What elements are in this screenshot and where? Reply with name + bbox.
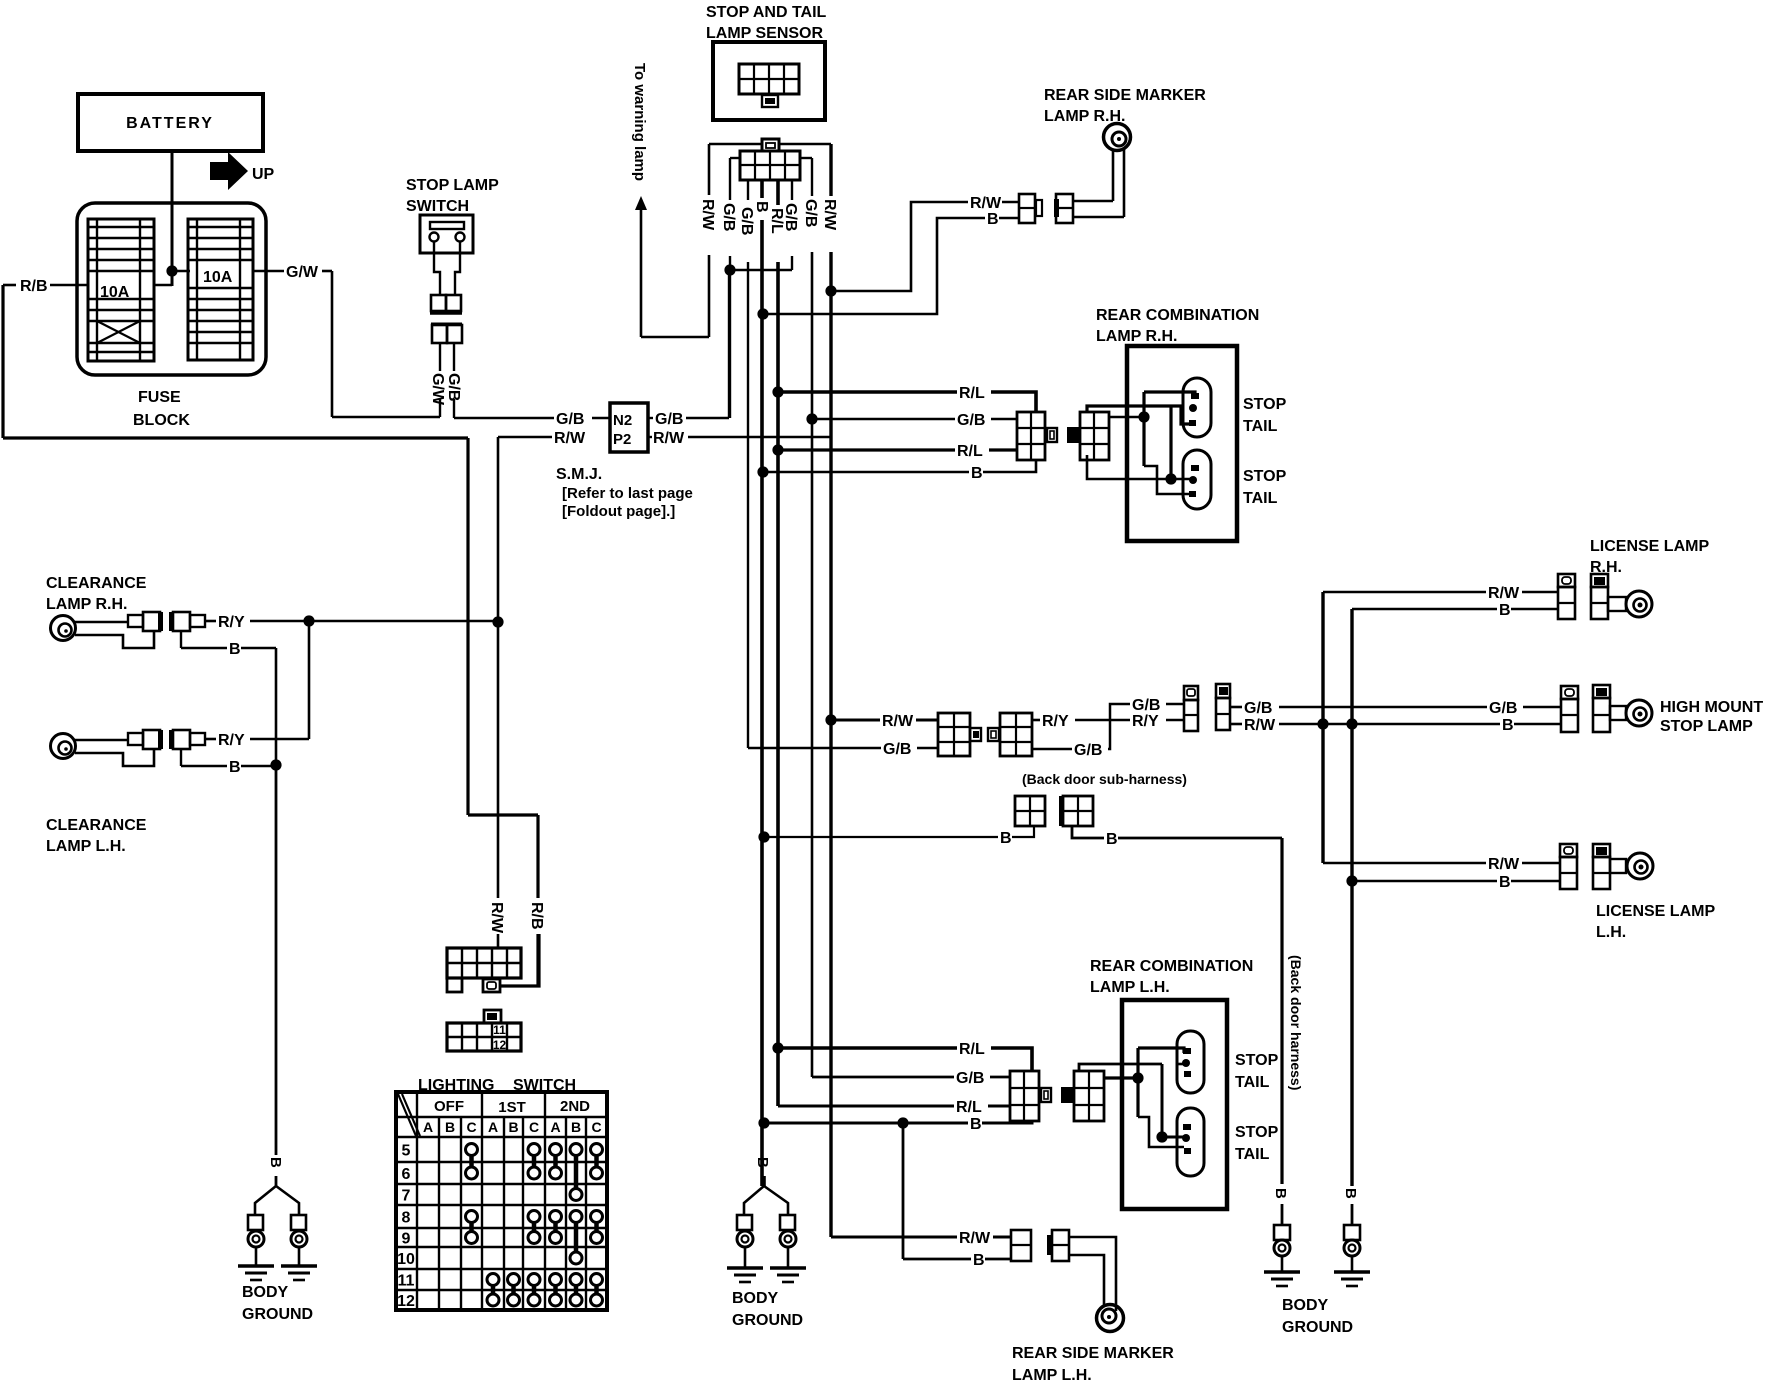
svg-text:10A: 10A	[203, 269, 233, 286]
svg-text:LAMP L.H.: LAMP L.H.	[1090, 979, 1170, 996]
svg-text:G/B: G/B	[956, 1070, 984, 1087]
svg-text:C: C	[591, 1119, 601, 1135]
svg-text:GROUND: GROUND	[732, 1312, 803, 1329]
svg-text:(Back door sub-harness): (Back door sub-harness)	[1022, 771, 1187, 787]
svg-text:STOP: STOP	[1243, 468, 1287, 485]
svg-text:B: B	[1499, 602, 1511, 619]
svg-text:B: B	[229, 641, 241, 658]
svg-text:R/W: R/W	[699, 199, 716, 231]
svg-text:R/L: R/L	[959, 385, 985, 402]
svg-text:HIGH MOUNT: HIGH MOUNT	[1660, 699, 1763, 716]
svg-text:B: B	[508, 1119, 518, 1135]
svg-text:LICENSE LAMP: LICENSE LAMP	[1596, 903, 1715, 920]
svg-text:R/Y: R/Y	[218, 732, 245, 749]
svg-text:B: B	[754, 1157, 771, 1168]
svg-text:G/B: G/B	[957, 412, 985, 429]
svg-text:CLEARANCE: CLEARANCE	[46, 817, 147, 834]
svg-text:BATTERY: BATTERY	[126, 115, 214, 132]
svg-text:B: B	[229, 759, 241, 776]
svg-text:REAR COMBINATION: REAR COMBINATION	[1096, 307, 1259, 324]
svg-text:LAMP L.H.: LAMP L.H.	[1012, 1367, 1092, 1384]
svg-text:9: 9	[402, 1231, 411, 1248]
svg-text:G/B: G/B	[1074, 742, 1102, 759]
svg-text:B: B	[1502, 717, 1514, 734]
svg-text:G/B: G/B	[445, 373, 462, 401]
svg-text:A: A	[550, 1119, 560, 1135]
svg-text:R/Y: R/Y	[218, 614, 245, 631]
svg-text:C: C	[466, 1119, 476, 1135]
svg-text:G/B: G/B	[1132, 697, 1160, 714]
svg-text:R/B: R/B	[20, 278, 48, 295]
svg-text:STOP: STOP	[1243, 396, 1287, 413]
svg-text:1ST: 1ST	[498, 1099, 526, 1116]
svg-text:R/L: R/L	[956, 1099, 982, 1116]
svg-text:R/W: R/W	[959, 1230, 991, 1247]
svg-text:G/B: G/B	[655, 411, 683, 428]
svg-text:B: B	[971, 465, 983, 482]
svg-text:B: B	[1342, 1188, 1359, 1199]
svg-text:11: 11	[493, 1023, 506, 1037]
svg-text:B: B	[987, 211, 999, 228]
svg-text:B: B	[970, 1116, 982, 1133]
svg-text:TAIL: TAIL	[1243, 490, 1278, 507]
svg-text:P2: P2	[613, 431, 631, 448]
svg-text:STOP: STOP	[1235, 1052, 1279, 1069]
svg-text:R/Y: R/Y	[1042, 713, 1069, 730]
svg-text:C: C	[529, 1119, 539, 1135]
svg-text:B: B	[973, 1252, 985, 1269]
svg-text:G/B: G/B	[1489, 700, 1517, 717]
svg-text:G/W: G/W	[286, 264, 319, 281]
svg-text:STOP: STOP	[1235, 1124, 1279, 1141]
svg-text:B: B	[1272, 1188, 1289, 1199]
svg-text:G/B: G/B	[1244, 700, 1272, 717]
svg-text:TAIL: TAIL	[1235, 1074, 1270, 1091]
svg-text:UP: UP	[252, 166, 275, 183]
svg-text:STOP AND TAIL: STOP AND TAIL	[706, 4, 827, 21]
svg-text:BODY: BODY	[732, 1290, 779, 1307]
svg-text:REAR SIDE MARKER: REAR SIDE MARKER	[1012, 1345, 1174, 1362]
svg-text:To warning lamp: To warning lamp	[631, 63, 648, 181]
svg-text:GROUND: GROUND	[242, 1306, 313, 1323]
svg-text:6: 6	[402, 1166, 411, 1183]
svg-text:R/W: R/W	[970, 195, 1002, 212]
svg-text:LAMP SENSOR: LAMP SENSOR	[706, 25, 824, 42]
svg-text:S.M.J.: S.M.J.	[556, 466, 602, 483]
svg-text:R/Y: R/Y	[1132, 713, 1159, 730]
svg-text:7: 7	[402, 1188, 411, 1205]
svg-text:R/W: R/W	[554, 430, 586, 447]
svg-text:TAIL: TAIL	[1235, 1146, 1270, 1163]
svg-text:LAMP L.H.: LAMP L.H.	[46, 838, 126, 855]
svg-text:R/W: R/W	[488, 902, 505, 934]
svg-text:R/L: R/L	[959, 1041, 985, 1058]
svg-text:CLEARANCE: CLEARANCE	[46, 575, 147, 592]
svg-text:[Foldout page].]: [Foldout page].]	[562, 503, 675, 520]
svg-text:8: 8	[402, 1210, 411, 1227]
svg-text:2ND: 2ND	[560, 1098, 590, 1115]
svg-text:12: 12	[493, 1038, 507, 1052]
svg-text:B: B	[267, 1157, 284, 1168]
svg-text:LAMP R.H.: LAMP R.H.	[46, 596, 127, 613]
svg-text:BODY: BODY	[242, 1284, 289, 1301]
svg-text:R/B: R/B	[528, 902, 545, 930]
svg-text:N2: N2	[613, 412, 632, 429]
svg-text:REAR SIDE MARKER: REAR SIDE MARKER	[1044, 87, 1206, 104]
svg-text:G/B: G/B	[802, 199, 819, 227]
svg-text:G/B: G/B	[556, 411, 584, 428]
svg-text:11: 11	[398, 1273, 415, 1290]
svg-text:B: B	[1000, 830, 1012, 847]
svg-text:A: A	[423, 1119, 433, 1135]
svg-text:[Refer to last page: [Refer to last page	[562, 485, 693, 502]
svg-text:G/B: G/B	[782, 203, 799, 231]
svg-text:OFF: OFF	[434, 1098, 464, 1115]
svg-text:G/B: G/B	[720, 203, 737, 231]
svg-text:R/W: R/W	[653, 430, 685, 447]
svg-text:SWITCH: SWITCH	[406, 198, 469, 215]
svg-text:G/W: G/W	[429, 373, 446, 406]
svg-text:LAMP R.H.: LAMP R.H.	[1096, 328, 1177, 345]
svg-text:G/B: G/B	[738, 207, 755, 235]
svg-text:REAR COMBINATION: REAR COMBINATION	[1090, 958, 1253, 975]
svg-text:10A: 10A	[100, 284, 130, 301]
svg-text:GROUND: GROUND	[1282, 1319, 1353, 1336]
svg-text:A: A	[488, 1119, 498, 1135]
svg-text:B: B	[753, 201, 770, 213]
svg-text:LICENSE LAMP: LICENSE LAMP	[1590, 538, 1709, 555]
svg-text:B: B	[1499, 874, 1511, 891]
svg-text:G/B: G/B	[883, 741, 911, 758]
svg-text:5: 5	[402, 1143, 411, 1160]
svg-text:BLOCK: BLOCK	[133, 412, 190, 429]
svg-text:(Back door harness): (Back door harness)	[1288, 955, 1304, 1090]
svg-text:STOP LAMP: STOP LAMP	[1660, 718, 1753, 735]
svg-text:R/W: R/W	[1488, 856, 1520, 873]
svg-text:R/L: R/L	[957, 443, 983, 460]
svg-text:STOP LAMP: STOP LAMP	[406, 177, 499, 194]
svg-text:TAIL: TAIL	[1243, 418, 1278, 435]
svg-text:R/W: R/W	[1488, 585, 1520, 602]
svg-text:B: B	[445, 1119, 455, 1135]
svg-text:B: B	[571, 1119, 581, 1135]
svg-text:R/W: R/W	[882, 713, 914, 730]
svg-text:FUSE: FUSE	[138, 389, 181, 406]
svg-text:10: 10	[397, 1251, 415, 1268]
svg-text:L.H.: L.H.	[1596, 924, 1626, 941]
svg-text:R/W: R/W	[1244, 717, 1276, 734]
svg-text:R/W: R/W	[821, 199, 838, 231]
svg-text:12: 12	[397, 1293, 415, 1310]
svg-text:BODY: BODY	[1282, 1297, 1329, 1314]
svg-text:B: B	[1106, 831, 1118, 848]
